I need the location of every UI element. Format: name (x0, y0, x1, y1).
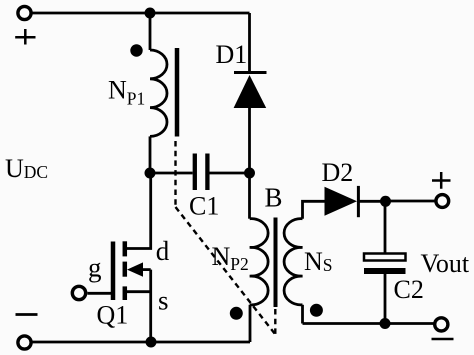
plus sign input (15, 29, 35, 45)
wire top rail (32, 12, 250, 15)
svg-text:NP2: NP2 (212, 242, 249, 274)
wire NP2 top (248, 173, 251, 219)
wire C2 bottom (384, 274, 387, 324)
terminal input plus (18, 6, 31, 19)
wire NP1 top (149, 13, 152, 50)
svg-text:Vout: Vout (421, 249, 470, 278)
core bar B (274, 218, 278, 308)
junction source node (146, 337, 157, 348)
junction output minus node (380, 318, 391, 329)
channel segment drain Q1 (123, 241, 128, 256)
wire body to source (143, 268, 151, 271)
svg-text:D2: D2 (322, 158, 354, 187)
core bar NP1 (175, 48, 180, 137)
wire output bottom rail (303, 322, 434, 325)
polarity dot NS (310, 304, 323, 317)
gate bar Q1 (111, 242, 116, 301)
wire D1 anode top (248, 13, 251, 72)
svg-text:B: B (265, 183, 283, 213)
svg-text:NP1: NP1 (108, 76, 145, 109)
inductor NP1 winding (150, 50, 167, 136)
svg-text:g: g (88, 253, 102, 283)
channel segment body Q1 (123, 262, 128, 277)
terminal output plus (436, 195, 449, 208)
svg-text:C1: C1 (189, 192, 219, 221)
transformer winding NP2 (250, 219, 268, 305)
junction output plus node (380, 196, 391, 207)
junction top node (145, 8, 156, 19)
terminal output minus (435, 318, 448, 331)
svg-text:UDC: UDC (5, 154, 48, 183)
core dashed extension (274, 309, 276, 335)
terminal gate (72, 286, 85, 299)
diode D2 (325, 187, 358, 216)
wire C1 right (210, 172, 250, 175)
terminal input minus (18, 336, 31, 349)
polarity dot NP2 (230, 307, 243, 320)
diode D1 (234, 71, 267, 74)
svg-text:C2: C2 (394, 275, 424, 304)
dashed coupling line diagonal (176, 207, 276, 334)
junction node left of C1 (145, 168, 156, 179)
wire D2 cathode (358, 200, 385, 203)
wire gate (88, 292, 112, 295)
transformer winding NS (284, 219, 302, 305)
wire C1 left (150, 172, 193, 175)
dashed coupling line vertical (174, 141, 176, 207)
wire bottom rail (32, 341, 250, 344)
wire NP1 bottom (149, 136, 152, 173)
plus sign output (432, 172, 451, 189)
capacitor C1 (195, 154, 208, 191)
wire source horizontal (127, 290, 151, 293)
svg-text:NS: NS (304, 247, 333, 276)
svg-text:Q1: Q1 (97, 301, 129, 330)
wire NS bottom (301, 305, 304, 324)
svg-text:s: s (158, 286, 169, 316)
wire D1 bottom (248, 108, 251, 173)
wire to output plus terminal (386, 200, 435, 203)
minus sign input (16, 313, 38, 316)
wire source vertical (149, 270, 152, 342)
transistor Q1 (113, 241, 143, 300)
wire drain (127, 173, 151, 249)
minus underline output (432, 338, 454, 340)
junction node right of C1 (244, 168, 255, 179)
polarity dot NP1 (130, 44, 142, 56)
capacitor C2 (364, 254, 406, 261)
wire NP2 bottom (249, 305, 252, 342)
svg-text:d: d (156, 236, 170, 266)
channel segment source Q1 (123, 286, 128, 300)
body arrow Q1 (127, 262, 143, 276)
svg-text:D1: D1 (216, 40, 248, 69)
wire NS top to D2 (303, 201, 326, 218)
wire C2 top (384, 201, 387, 253)
